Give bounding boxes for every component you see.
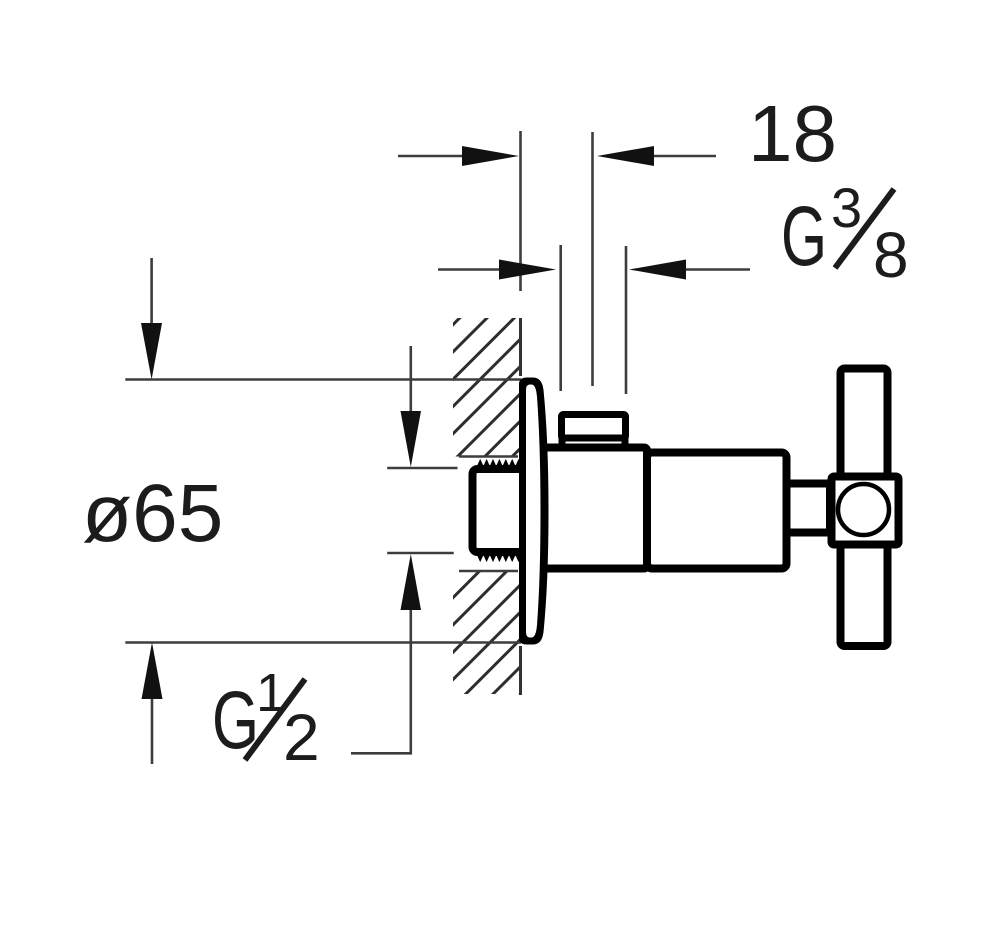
svg-text:8: 8 — [873, 219, 909, 291]
svg-text:3: 3 — [831, 176, 862, 239]
svg-text:2: 2 — [283, 700, 320, 774]
svg-text:18: 18 — [748, 89, 837, 178]
svg-text:ø65: ø65 — [82, 468, 223, 559]
svg-text:G: G — [781, 189, 827, 283]
